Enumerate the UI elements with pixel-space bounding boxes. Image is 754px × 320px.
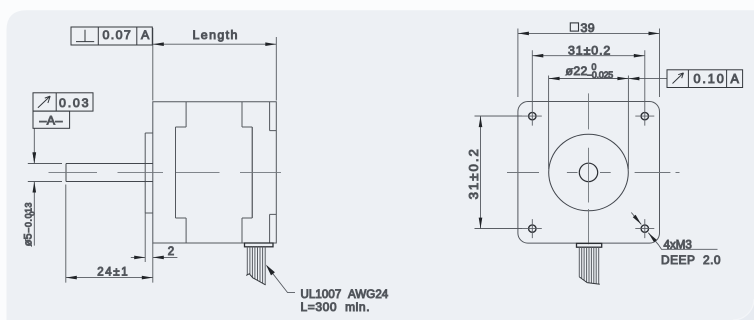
svg-text:ø22: ø22 xyxy=(566,64,588,78)
pilot boss xyxy=(145,133,153,213)
rear housing step xyxy=(270,102,277,243)
rear end-cap line xyxy=(241,102,243,243)
svg-text:DEEP 2.0: DEEP 2.0 xyxy=(661,253,721,267)
svg-text:ø5: ø5 xyxy=(23,233,35,246)
svg-text:39: 39 xyxy=(581,21,596,35)
31 left extensions xyxy=(475,116,523,229)
svg-text:Length: Length xyxy=(193,28,239,42)
4xM3 leader segments xyxy=(631,213,717,250)
shaft circle xyxy=(579,163,597,181)
sq39 arrows xyxy=(518,32,529,36)
svg-text:0: 0 xyxy=(28,211,37,215)
svg-text:4xM3: 4xM3 xyxy=(664,239,692,252)
24 dimension line xyxy=(66,277,153,279)
2 dimension line with tails xyxy=(131,256,178,258)
perpendicularity symbol xyxy=(76,30,94,42)
motor body outline xyxy=(153,102,276,243)
dia22 arrows xyxy=(549,77,560,81)
Length arrows xyxy=(153,42,164,46)
dia22 extensions xyxy=(549,76,629,170)
2 arrows xyxy=(134,256,145,260)
square symbol of sq39 xyxy=(570,23,578,31)
UL leader xyxy=(267,266,295,292)
circular runout frame (right) xyxy=(667,70,743,88)
0.10 frame leader xyxy=(628,78,667,80)
svg-text:−0.013: −0.013 xyxy=(24,202,34,233)
dia5 rotated text xyxy=(23,202,37,246)
4xM3 arrow upper xyxy=(633,215,642,225)
svg-text:31±0.2: 31±0.2 xyxy=(466,147,481,199)
horizontal centerline xyxy=(507,172,680,174)
31 left dimension line xyxy=(480,116,482,229)
stator right steps xyxy=(242,127,252,218)
wire exit plate (side) xyxy=(245,243,274,247)
wire bundle cut edge (side) xyxy=(246,274,265,285)
wire bundle cut edge (front) xyxy=(579,277,600,284)
31 left rotated text xyxy=(466,147,481,199)
datum leader arrow xyxy=(33,152,37,163)
stator right edge xyxy=(251,127,253,218)
screw hole BL xyxy=(529,225,536,232)
4xM3 arrow lower xyxy=(648,233,657,243)
shaft xyxy=(66,164,153,182)
2 dim extension xyxy=(144,213,146,262)
dia22 dimension line xyxy=(549,78,629,80)
sq39 extensions xyxy=(518,29,660,98)
31 top arrows xyxy=(532,54,543,58)
0.10 leader arrow xyxy=(628,77,639,81)
Length dimension line xyxy=(153,43,276,45)
pilot circle xyxy=(549,134,629,211)
svg-text:A: A xyxy=(141,28,150,42)
31 left arrows xyxy=(479,116,483,127)
svg-text:24±1: 24±1 xyxy=(97,266,129,278)
Length extension lines xyxy=(153,28,276,101)
UL arrow xyxy=(266,265,275,276)
vertical centerline xyxy=(588,93,590,244)
sq39 dimension line xyxy=(518,32,660,34)
dia5 arrows xyxy=(33,153,37,164)
svg-text:0.03: 0.03 xyxy=(59,96,90,110)
svg-text:31±0.2: 31±0.2 xyxy=(568,43,611,57)
runout frame xyxy=(33,93,93,111)
hole crosshairs xyxy=(475,50,655,238)
runout symbol arrow xyxy=(38,96,50,108)
svg-text:2: 2 xyxy=(168,246,174,258)
stator left steps xyxy=(176,127,187,218)
wire bundle (side) xyxy=(247,247,265,285)
svg-text:0.07: 0.07 xyxy=(103,28,133,42)
datum A box xyxy=(33,111,70,128)
stator left edge xyxy=(175,127,177,218)
wire bundle (front) xyxy=(579,247,598,284)
svg-text:−0.025: −0.025 xyxy=(587,70,613,80)
24 dim extensions xyxy=(66,185,153,283)
svg-text:0.10: 0.10 xyxy=(694,72,726,86)
24 arrows xyxy=(66,276,77,280)
wire exit plate (front) xyxy=(577,243,602,247)
screw hole BR xyxy=(641,225,648,232)
side centerline xyxy=(49,171,282,173)
svg-text:L=300 min.: L=300 min. xyxy=(301,300,371,314)
square flange xyxy=(518,102,660,244)
front end-cap line xyxy=(185,102,187,243)
svg-text:–A–: –A– xyxy=(40,114,63,128)
svg-text:A: A xyxy=(731,72,740,86)
dia5 extension lines xyxy=(28,164,62,182)
runout symbol arrow (right) xyxy=(673,73,684,84)
31 top dimension line xyxy=(532,55,645,57)
dia5 dimension line / datum leader line xyxy=(33,129,35,246)
screw hole TR xyxy=(641,112,648,119)
perpendicularity frame xyxy=(71,27,152,45)
screw hole TL xyxy=(529,112,536,119)
bottom-right page corner xyxy=(733,299,754,320)
